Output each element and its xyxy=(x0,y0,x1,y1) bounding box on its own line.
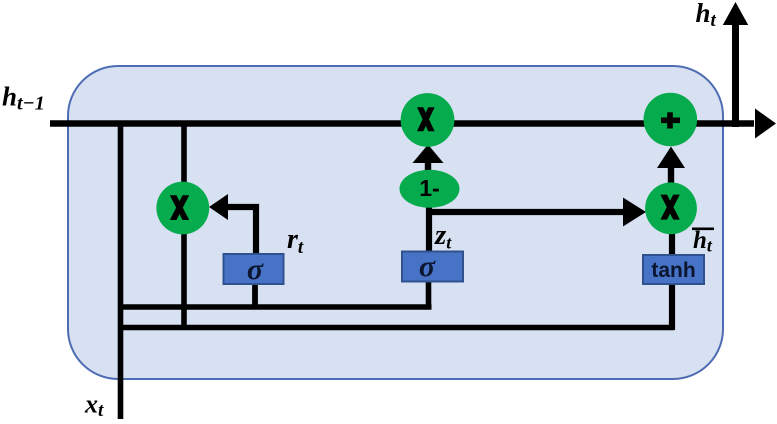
svg-text:σ: σ xyxy=(247,253,264,286)
svg-text:tanh: tanh xyxy=(651,259,695,282)
svg-text:1-: 1- xyxy=(419,175,439,201)
svg-text:σ: σ xyxy=(419,250,436,283)
